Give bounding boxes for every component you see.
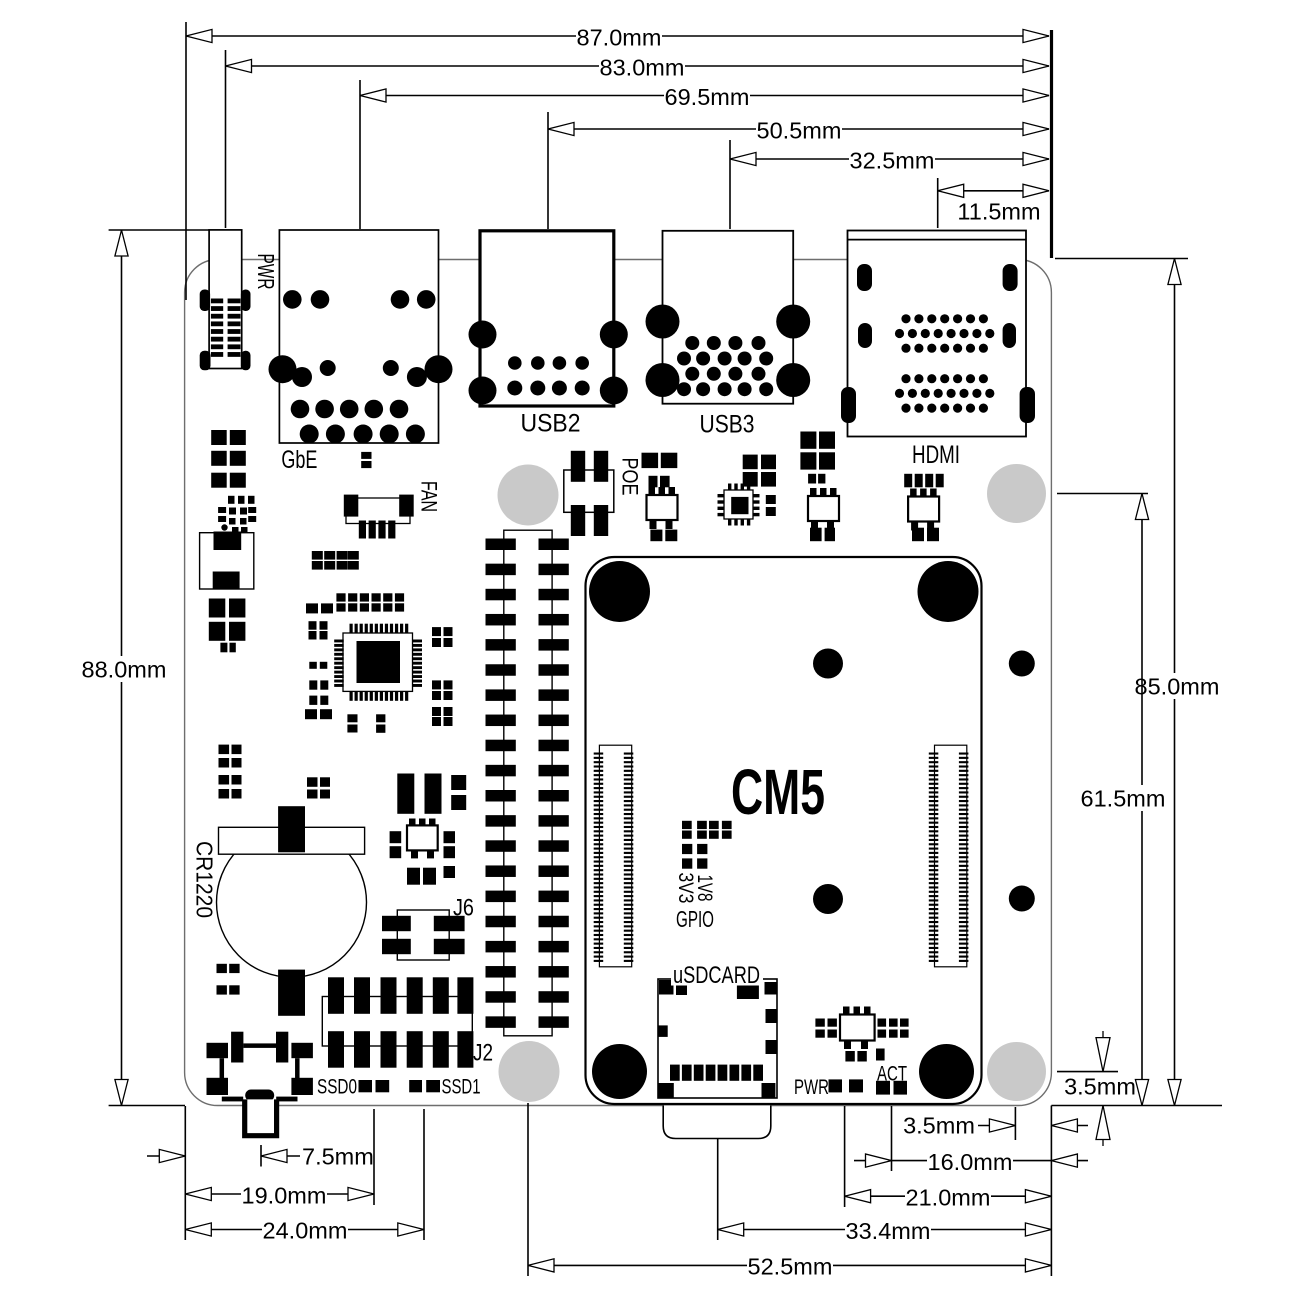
dimension 50.5mm (top) (548, 128, 1049, 130)
passives left of U-qfp (305, 603, 333, 719)
svg-text:50.5mm: 50.5mm (757, 117, 842, 143)
dimension 32.5mm (top) (730, 158, 1049, 160)
transistor U-reg near USB2 (642, 453, 678, 541)
svg-text:24.0mm: 24.0mm (263, 1217, 348, 1243)
extension line x=844.6 (PWR led) (844, 1106, 846, 1207)
LED SSD1 (409, 1080, 422, 1092)
svg-text:PWR: PWR (794, 1076, 829, 1099)
extension line x=548 (50.5mm) (547, 112, 549, 229)
CM5 corner hole top-right (918, 561, 979, 622)
extension line bottom-left y=1105.5 (109, 1105, 185, 1107)
svg-text:3.5mm: 3.5mm (1064, 1074, 1136, 1100)
dimension 83.0mm (top) (226, 65, 1050, 67)
extension line x=937.7 (11.5mm) (937, 178, 939, 228)
passives mid-left column (219, 745, 242, 799)
label uSDCARD (671, 963, 763, 986)
svg-text:HDMI: HDMI (912, 441, 960, 469)
passives right of U-qfp (432, 627, 453, 726)
extension line x=225.5 (83.0mm) (225, 50, 227, 228)
IC U-qfp main (334, 624, 422, 701)
LED PWR (829, 1079, 843, 1092)
battery holder CR1220 (217, 806, 367, 1016)
svg-text:85.0mm: 85.0mm (1135, 673, 1220, 699)
extension line connector-top y=230 (109, 229, 210, 231)
connector PWR barrel jack (200, 230, 251, 370)
dimension 3.5mm (right, hole to edge) (1057, 1071, 1118, 1073)
header J2 (322, 977, 473, 1067)
small hole mid top-right (1009, 651, 1035, 677)
connector bottom-left cluster (power switch) (207, 1032, 313, 1102)
connector USB3 stacked jack (646, 231, 811, 404)
connector B2B left (CM5) (594, 745, 634, 967)
pads row above U-qfp (336, 593, 404, 611)
svg-text:USB3: USB3 (700, 411, 755, 439)
svg-text:11.5mm: 11.5mm (957, 199, 1040, 225)
transistor U-reg near USB3 (800, 432, 839, 542)
small hole mid top-left (813, 649, 843, 679)
LED ACT (876, 1081, 890, 1095)
header J6 (382, 910, 465, 960)
pads below U-qfp (347, 714, 385, 733)
connector bottom-left small (D-pad) (200, 532, 254, 590)
IC U-qfn center top (718, 455, 777, 526)
PCB board outline (185, 260, 1052, 1106)
extension line x=261 (usb-c center) (260, 1145, 262, 1167)
connector HDMI (841, 231, 1035, 437)
svg-text:POE: POE (618, 458, 643, 496)
svg-text:61.5mm: 61.5mm (1081, 785, 1166, 811)
dimension 69.5mm (top) (360, 95, 1049, 97)
CM5 corner hole bottom-right (919, 1044, 974, 1099)
mounting hole bottom-left (499, 1041, 560, 1102)
uSD card protruding (663, 1106, 771, 1139)
svg-text:69.5mm: 69.5mm (665, 84, 750, 110)
svg-text:88.0mm: 88.0mm (82, 656, 167, 682)
header POE (564, 451, 614, 536)
dimension 3.5mm (bottom, hole to edge) (978, 1125, 1015, 1127)
extension line bottom-right y=1105.5 (1051, 1105, 1222, 1107)
dimension 11.5mm (top) (938, 190, 1049, 192)
capacitor C-big (397, 774, 466, 814)
transistor U-led-driver (CM5 bottom) (815, 1007, 908, 1062)
svg-text:J6: J6 (453, 895, 474, 922)
connector USB2 stacked jack (469, 231, 628, 406)
jumper pads row (4 pairs) (312, 551, 359, 570)
svg-text:USB2: USB2 (521, 410, 581, 438)
extension line x=730 (32.5mm) (729, 140, 731, 229)
svg-text:3V3: 3V3 (674, 873, 697, 904)
IC U-small with pin1 dot (218, 496, 256, 534)
svg-text:CM5: CM5 (731, 756, 825, 828)
extension line x=891.5 (ACT led) (891, 1106, 893, 1171)
connector B2B right (CM5) (929, 745, 969, 967)
extension line hole-center y=493.5 (1057, 493, 1148, 495)
connector FAN (344, 495, 414, 539)
svg-text:32.5mm: 32.5mm (850, 147, 935, 173)
extension line board-top right y=258 (1055, 258, 1188, 260)
svg-text:PWR: PWR (253, 254, 279, 290)
GPIO config pads (682, 821, 732, 869)
passives pair near battery top (307, 777, 318, 787)
mounting hole top-right (987, 464, 1046, 523)
dimension 52.5mm (bottom) (528, 1264, 1051, 1266)
mounting hole bottom-right (987, 1042, 1046, 1101)
svg-text:3.5mm: 3.5mm (903, 1113, 975, 1139)
extension line board right edge x=1050.5 (1050, 30, 1053, 258)
transistor U-reg near HDMI (904, 474, 944, 541)
svg-text:GPIO: GPIO (676, 906, 714, 932)
svg-text:GbE: GbE (281, 446, 317, 474)
svg-text:19.0mm: 19.0mm (242, 1182, 327, 1208)
extension line x=185.3 (board left, bottom) (184, 1106, 186, 1240)
header J8 GPIO 40-pin (486, 530, 569, 1036)
module CM5 outline (586, 557, 982, 1104)
mounting hole top-left (498, 465, 559, 526)
svg-text:21.0mm: 21.0mm (906, 1184, 991, 1210)
dimension 61.5mm (right) (1141, 494, 1143, 1106)
dimension 16.0mm (bottom) (892, 1160, 1052, 1162)
svg-text:83.0mm: 83.0mm (600, 54, 685, 80)
svg-text:J2: J2 (473, 1040, 493, 1067)
extension line x=374 (SSD0 led) (373, 1109, 375, 1205)
passives column below PWR (211, 430, 246, 488)
extension line x=1015.4 (hole center br) (1014, 1107, 1016, 1140)
dimension 21.0mm (bottom) (845, 1195, 1052, 1197)
dimension 85.0mm (right) (1174, 259, 1176, 1106)
svg-text:FAN: FAN (417, 481, 442, 512)
LED SSD0 (359, 1080, 373, 1092)
svg-text:7.5mm: 7.5mm (302, 1144, 374, 1170)
svg-text:33.4mm: 33.4mm (846, 1218, 931, 1244)
connector uSDCARD socket (658, 979, 778, 1098)
extension line x=1051.4 (board right, bottom) (1050, 1106, 1052, 1277)
extension line x=528 (hole center, bottom) (527, 1103, 529, 1276)
dimension 24.0mm (bottom) (185, 1229, 423, 1231)
svg-text:16.0mm: 16.0mm (928, 1149, 1013, 1175)
dimension 19.0mm (bottom) (185, 1193, 374, 1195)
svg-text:CR1220: CR1220 (192, 841, 218, 918)
extension line x=360 (69.5mm) (359, 80, 361, 229)
dimension 87.0mm (top) (186, 35, 1049, 37)
small hole mid bottom-right (1009, 886, 1035, 912)
connector GbE ethernet jack (269, 230, 453, 444)
extension line x=186 (87.0mm) (185, 22, 187, 300)
CM5 corner hole top-left (589, 561, 650, 622)
svg-text:SSD1: SSD1 (442, 1076, 481, 1099)
svg-text:SSD0: SSD0 (317, 1076, 357, 1099)
dimension 88.0mm (left) (121, 230, 123, 1106)
connector USB-C power (protruding) (245, 1099, 277, 1135)
passives 2x2 left (209, 599, 246, 653)
passives left bottom pair rows (217, 964, 240, 995)
svg-text:52.5mm: 52.5mm (748, 1253, 833, 1279)
small hole mid bottom-left (813, 884, 843, 914)
dimension 7.5mm (bottom) (147, 1155, 185, 1157)
dimension 33.4mm (bottom) (718, 1229, 1052, 1231)
extension line x=424 (SSD1 led) (423, 1109, 425, 1240)
svg-text:uSDCARD: uSDCARD (673, 962, 760, 989)
passives pair below GbE (361, 452, 371, 459)
CM5 corner hole bottom-left (592, 1044, 647, 1099)
transistor Q-reg near J6 (390, 819, 455, 885)
svg-text:87.0mm: 87.0mm (577, 24, 662, 50)
extension line x=717.7 (uSD center) (717, 1139, 719, 1241)
